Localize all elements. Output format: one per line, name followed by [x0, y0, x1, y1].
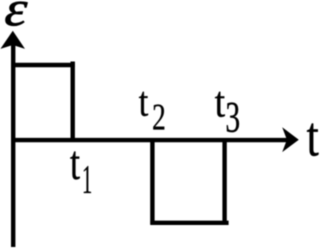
wire negative pulse bottom segment	[150, 221, 228, 225]
node label t3 - letter t	[215, 92, 225, 117]
node y-axis arrowhead	[0, 31, 25, 49]
node label t1 - subscript 1	[84, 166, 91, 193]
node label t2 - letter t	[139, 92, 148, 116]
node label t3 - subscript 3	[227, 103, 239, 133]
node label t1 - letter t	[70, 151, 79, 179]
wire positive pulse falling edge at t1	[70, 62, 74, 141]
wire negative pulse falling edge at t2	[150, 138, 154, 225]
wire negative pulse rising edge at t3	[222, 140, 226, 225]
node x-axis arrowhead	[282, 127, 299, 152]
node label t2 - subscript 2	[153, 104, 164, 129]
node label t (time axis label)	[307, 124, 319, 157]
node label epsilon (EMF axis label)	[5, 2, 27, 26]
wire positive pulse top segment	[11, 63, 75, 67]
wire horizontal axis (t axis)	[11, 138, 289, 142]
wire vertical axis (epsilon axis)	[11, 42, 15, 247]
